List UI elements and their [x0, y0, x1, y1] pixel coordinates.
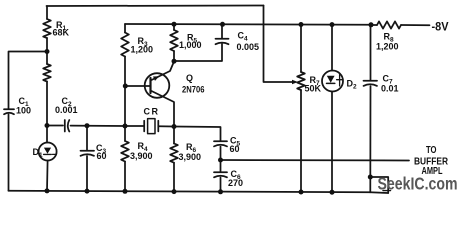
svg-text:100: 100: [16, 106, 31, 116]
resistor R1: [43, 6, 51, 52]
resistor R6: [170, 127, 178, 192]
svg-text:60: 60: [230, 144, 240, 154]
label R6 3,900: [179, 142, 202, 162]
wire C2 left: [47, 125, 63, 127]
svg-text:3,900: 3,900: [130, 151, 153, 161]
svg-text:68K: 68K: [53, 28, 70, 38]
capacitor C2: [65, 120, 70, 132]
svg-text:1,200: 1,200: [131, 45, 154, 55]
diode D1: [39, 126, 57, 191]
crystal CR: [125, 119, 174, 134]
label R3 1,200: [131, 36, 154, 55]
label C1 100: [16, 96, 31, 116]
wire second rail: [125, 23, 371, 26]
label TO BUFFER AMPL: [414, 145, 449, 177]
resistor R4: [121, 126, 129, 191]
svg-text:270: 270: [228, 178, 243, 188]
label Q 2N706: [182, 73, 205, 95]
label R5 1,000: [179, 33, 202, 51]
resistor R3: [121, 24, 129, 126]
wire left branch: [9, 52, 48, 110]
svg-text:0.005: 0.005: [237, 42, 260, 52]
label R1 68K: [53, 20, 70, 38]
wire emitter node to C4: [174, 44, 222, 61]
wire top rail: [47, 5, 264, 8]
wire return stub: [370, 177, 391, 193]
label C4 0.005: [237, 31, 260, 53]
svg-text:TO: TO: [426, 145, 437, 156]
capacitor C1: [4, 109, 14, 190]
wire output line: [221, 159, 410, 162]
resistor R2 (unlabeled): [43, 52, 51, 126]
label C5 60: [230, 136, 241, 155]
diode D2: [322, 24, 343, 192]
capacitor C7: [364, 25, 378, 193]
svg-text:D2: D2: [347, 79, 358, 91]
capacitor C4: [216, 24, 229, 44]
svg-text:3,900: 3,900: [179, 152, 202, 162]
label C3 60: [96, 143, 107, 161]
transistor Q1: [125, 62, 174, 127]
svg-text:CR: CR: [144, 107, 160, 117]
svg-text:50K: 50K: [305, 84, 322, 94]
wire drop from top rail to wiper: [264, 6, 294, 83]
label R7 50K: [305, 75, 322, 94]
svg-text:-8V: -8V: [432, 20, 449, 34]
wire node to C5: [174, 127, 221, 141]
svg-text:D1: D1: [33, 147, 44, 159]
svg-text:1,000: 1,000: [179, 40, 202, 50]
node junction dots: [45, 22, 374, 195]
capacitor C5: [214, 141, 227, 160]
potentiometer R7: [292, 24, 305, 192]
svg-text:0.01: 0.01: [381, 84, 399, 94]
svg-text:Q: Q: [186, 73, 193, 83]
label R4 3,900: [130, 141, 153, 161]
resistor R5: [170, 24, 178, 61]
svg-text:SeekIC.com: SeekIC.com: [378, 173, 458, 193]
capacitor C3: [81, 126, 95, 191]
capacitor C6: [214, 160, 227, 192]
resistor R8: [371, 21, 430, 28]
wire C2 to node: [71, 125, 126, 127]
svg-text:1,200: 1,200: [376, 42, 399, 52]
wire bottom rail: [9, 191, 371, 193]
label C7 0.01: [381, 74, 399, 94]
svg-text:60: 60: [97, 151, 107, 161]
svg-text:C4: C4: [238, 31, 249, 43]
label C2 0.001: [55, 96, 78, 115]
label R8 1,200: [376, 32, 399, 52]
svg-text:0.001: 0.001: [55, 105, 78, 115]
svg-text:2N706: 2N706: [182, 85, 205, 95]
label C6 270: [228, 169, 243, 188]
